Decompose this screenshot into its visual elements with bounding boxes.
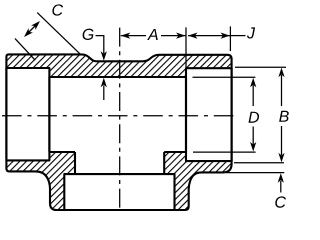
dim J line <box>188 35 230 37</box>
body outer outline <box>6 54 231 210</box>
right socket bore <box>186 68 232 161</box>
dim D <box>249 112 260 123</box>
run bore <box>49 77 186 152</box>
branch bore side walls <box>75 152 164 174</box>
branch socket bore <box>64 174 174 210</box>
dim B <box>279 111 289 122</box>
centerline vertical (branch) <box>119 28 121 210</box>
right side extension lines <box>235 66 286 68</box>
extension line right socket shoulder <box>185 27 187 68</box>
dim C top-left <box>52 4 63 15</box>
dim A line <box>121 35 186 37</box>
centerline horizontal <box>2 115 237 117</box>
extension line right face <box>229 26 231 51</box>
left socket bore <box>6 68 49 160</box>
dim G leader + arrows <box>83 29 94 40</box>
dim C bottom right <box>275 196 286 207</box>
tee body hatched material (outer outline minus bores) <box>6 54 231 210</box>
